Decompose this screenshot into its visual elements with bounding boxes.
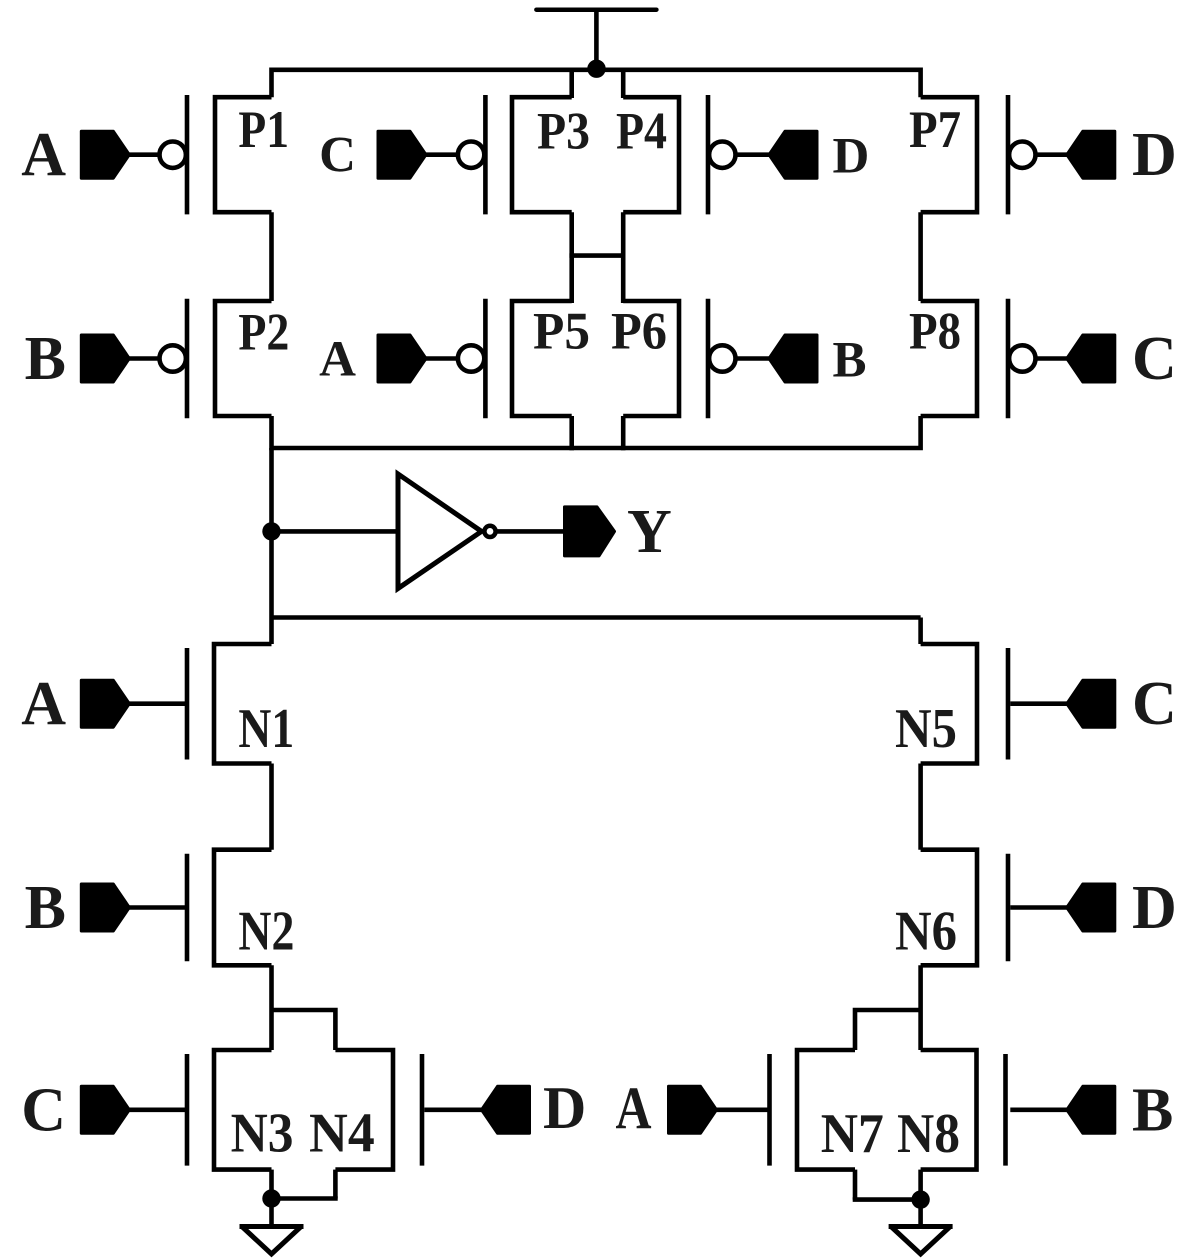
svg-text:B: B (25, 325, 66, 393)
svg-text:D: D (1132, 874, 1177, 942)
svg-text:P1: P1 (238, 101, 289, 159)
svg-text:N1: N1 (238, 698, 294, 760)
svg-text:C: C (1132, 670, 1177, 738)
svg-text:N4: N4 (309, 1103, 375, 1165)
svg-text:C: C (319, 128, 356, 184)
svg-text:P3: P3 (537, 103, 590, 161)
svg-text:P4: P4 (616, 103, 667, 161)
svg-text:B: B (833, 333, 867, 389)
svg-text:P7: P7 (909, 101, 961, 159)
svg-text:D: D (1132, 121, 1177, 189)
svg-text:N7: N7 (821, 1103, 884, 1165)
svg-text:P8: P8 (909, 303, 961, 361)
svg-text:P6: P6 (611, 303, 667, 361)
svg-text:C: C (1132, 325, 1177, 393)
svg-text:A: A (616, 1075, 652, 1141)
svg-text:A: A (21, 670, 66, 738)
svg-text:B: B (1132, 1076, 1173, 1144)
svg-text:C: C (21, 1076, 66, 1144)
svg-text:B: B (25, 874, 66, 942)
svg-text:D: D (833, 129, 870, 185)
svg-text:N6: N6 (895, 901, 957, 963)
svg-text:A: A (21, 121, 66, 189)
svg-text:Y: Y (627, 498, 672, 566)
svg-text:N2: N2 (238, 901, 294, 963)
svg-text:N5: N5 (895, 698, 957, 760)
svg-text:N3: N3 (231, 1103, 294, 1165)
svg-text:P5: P5 (533, 303, 590, 361)
svg-text:D: D (543, 1075, 586, 1141)
svg-text:N8: N8 (897, 1103, 960, 1165)
svg-text:P2: P2 (238, 304, 289, 362)
svg-text:A: A (319, 332, 356, 388)
